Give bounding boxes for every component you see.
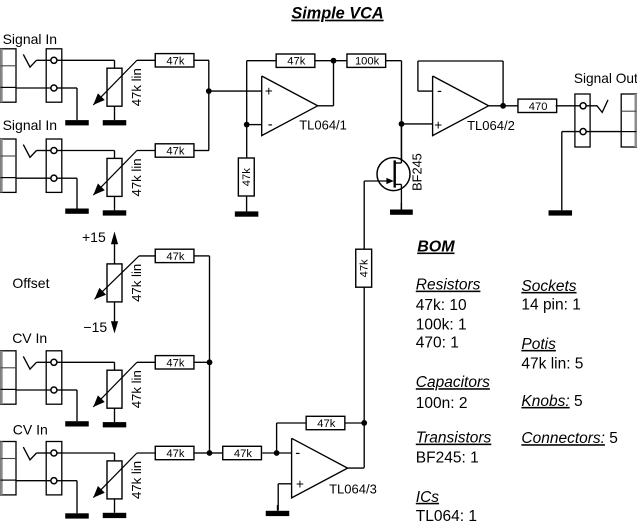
svg-text:BF245: 1: BF245: 1 [416,449,479,466]
svg-text:Sockets: Sockets [521,278,576,295]
svg-text:TL064: 1: TL064: 1 [416,508,477,525]
svg-text:BOM: BOM [417,239,455,256]
svg-text:+: + [296,477,304,492]
svg-text:47k: 47k [359,259,371,277]
svg-text:+15: +15 [82,229,106,245]
svg-text:BF245: BF245 [410,153,425,191]
svg-text:CV In: CV In [12,330,47,346]
svg-text:Potis: Potis [521,336,556,353]
svg-text:+: + [265,84,273,99]
svg-text:47k: 47k [166,55,184,67]
svg-text:Signal In: Signal In [3,31,57,47]
svg-text:47k: 47k [166,357,184,369]
svg-text:14 pin: 1: 14 pin: 1 [521,296,580,313]
svg-text:47k: 47k [166,448,184,460]
svg-text:Knobs: 5: Knobs: 5 [521,393,582,410]
svg-text:Transistors: Transistors [416,430,492,447]
svg-text:47k: 47k [317,418,335,430]
svg-text:47k: 47k [166,251,184,263]
svg-text:Simple VCA: Simple VCA [291,5,383,23]
svg-text:100k: 100k [355,56,380,68]
svg-text:47k: 47k [287,56,305,68]
svg-text:Signal Out: Signal Out [574,71,637,86]
svg-text:Offset: Offset [12,275,49,291]
svg-text:470: 1: 470: 1 [416,335,459,352]
svg-text:47k: 47k [234,448,252,460]
svg-text:CV In: CV In [13,422,48,438]
svg-text:ICs: ICs [416,489,440,506]
svg-text:TL064/3: TL064/3 [329,482,377,497]
svg-text:TL064/1: TL064/1 [299,118,347,133]
svg-text:47k: 10: 47k: 10 [416,297,467,314]
svg-text:TL064/2: TL064/2 [467,118,515,133]
svg-text:47k: 47k [166,146,184,158]
svg-text:47k lin: 5: 47k lin: 5 [521,355,583,372]
svg-text:Capacitors: Capacitors [416,374,490,391]
svg-text:470: 470 [529,101,548,113]
svg-text:47k lin: 47k lin [129,461,144,499]
svg-text:-: - [295,445,300,462]
svg-text:100k: 1: 100k: 1 [416,316,467,333]
svg-text:100n: 2: 100n: 2 [416,395,468,412]
svg-text:-: - [437,83,442,100]
svg-text:-: - [268,116,273,133]
svg-text:+: + [434,117,442,132]
svg-text:47k: 47k [241,168,253,186]
svg-text:Connectors: 5: Connectors: 5 [521,430,618,447]
svg-text:47k lin: 47k lin [129,158,144,196]
svg-text:47k lin: 47k lin [129,370,144,408]
svg-text:Signal In: Signal In [3,117,57,133]
svg-text:−15: −15 [83,319,107,335]
svg-text:47k lin: 47k lin [129,68,144,106]
svg-text:Resistors: Resistors [416,277,481,294]
svg-text:47k lin: 47k lin [129,264,144,302]
